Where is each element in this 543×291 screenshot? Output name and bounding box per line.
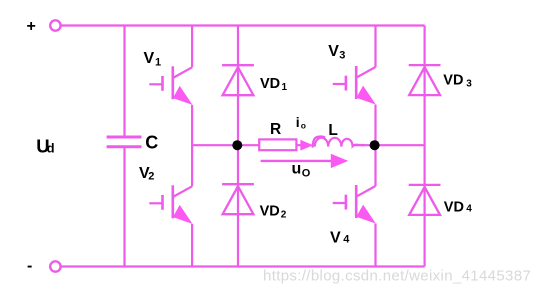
svg-text:-: - bbox=[27, 258, 32, 275]
svg-text:+: + bbox=[27, 18, 36, 35]
svg-text:V: V bbox=[330, 229, 341, 246]
svg-text:V: V bbox=[144, 50, 155, 67]
svg-text:VD: VD bbox=[260, 204, 280, 220]
svg-text:4: 4 bbox=[343, 233, 350, 245]
svg-text:2: 2 bbox=[148, 171, 154, 183]
svg-text:d: d bbox=[47, 140, 55, 155]
svg-text:3: 3 bbox=[339, 50, 345, 62]
svg-text:L: L bbox=[328, 122, 337, 139]
svg-text:i: i bbox=[296, 114, 300, 130]
svg-text:O: O bbox=[302, 168, 311, 180]
svg-text:VD: VD bbox=[260, 76, 280, 92]
svg-text:C: C bbox=[145, 133, 158, 153]
svg-text:VD: VD bbox=[444, 200, 464, 216]
svg-text:1: 1 bbox=[282, 82, 288, 93]
svg-text:3: 3 bbox=[466, 78, 472, 89]
svg-text:2: 2 bbox=[281, 209, 287, 220]
svg-text:V: V bbox=[328, 43, 339, 60]
svg-text:u: u bbox=[292, 161, 302, 178]
svg-text:https://blog.csdn.net/weixin_4: https://blog.csdn.net/weixin_41445387 bbox=[263, 268, 531, 285]
svg-text:1: 1 bbox=[155, 57, 161, 69]
svg-text:VD: VD bbox=[443, 72, 463, 88]
svg-text:o: o bbox=[301, 120, 306, 130]
svg-text:4: 4 bbox=[466, 204, 472, 215]
svg-text:R: R bbox=[270, 121, 281, 138]
